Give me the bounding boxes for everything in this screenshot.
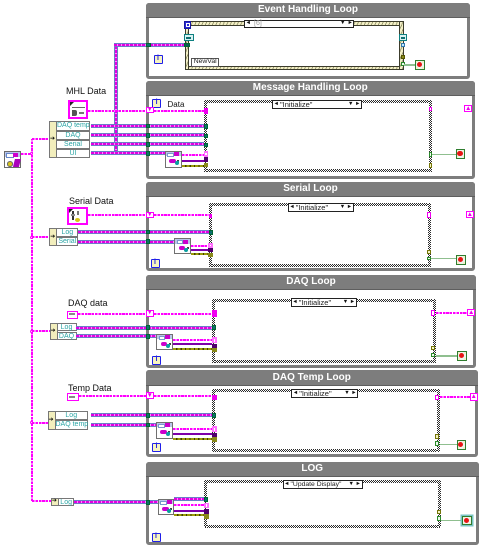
unbundle node Serial: cluster strip: [49, 228, 57, 246]
case structure Serial: right border: [428, 203, 431, 267]
tunnel olive DAQ: [212, 348, 217, 352]
VI icon MHL (dequeue message): [165, 151, 182, 168]
label Data: [168, 100, 188, 107]
stop button terminal Temp stop: [457, 440, 467, 450]
tunnel green LOG right: [437, 516, 441, 521]
banner: DAQ Temp Loop: [146, 370, 478, 386]
tunnel MHL loop tunnel 3: [146, 142, 151, 147]
unbundle node DAQ: input arrow: [51, 329, 58, 334]
wire MHL message out: [182, 160, 204, 162]
case structure DAQ: right border: [433, 299, 436, 363]
wire junction UI queue junction: [114, 152, 118, 156]
tunnel MHL case tunnel 2: [204, 134, 208, 139]
tunnel olive on event right border: [401, 55, 406, 59]
unbundle node MHL Data: field DAQ: [56, 131, 90, 140]
label Serial Data: [69, 196, 139, 206]
case structure LOG: left border: [204, 480, 207, 527]
shift register DAQ right: [467, 309, 475, 316]
wire shift register to case: [154, 110, 204, 112]
tunnel olive DAQ right: [431, 346, 435, 350]
wire branch to LOG node: [32, 500, 52, 502]
selector increment arrow LOG: [356, 482, 361, 488]
tunnel green MHL right: [429, 152, 433, 157]
unbundle node DAQ: field Log: [57, 323, 77, 331]
case structure LOG: top border: [204, 480, 441, 483]
event data node label NewVal: [191, 58, 219, 67]
case selector label Temp: [291, 389, 358, 398]
tunnel Temp loop tunnel 1: [146, 413, 151, 418]
tunnel purple DAQ: [212, 344, 217, 348]
tunnel green Temp right: [435, 441, 439, 446]
VI icon Main.vi: [4, 151, 21, 168]
event selector decrement arrow: [246, 21, 251, 27]
wire branch to DAQ unbundle: [32, 330, 51, 332]
wire DAQ queue: [91, 133, 205, 137]
tunnel MHL loop tunnel 1: [146, 124, 151, 129]
shift register MHL left: [146, 107, 155, 113]
wire DAQ stop wire: [436, 355, 458, 357]
tunnel purple Serial: [208, 248, 213, 252]
wire Serial Data to shift register: [88, 214, 145, 216]
unbundle node LOG: field Log: [58, 498, 75, 506]
tunnel MHL case data out: [429, 107, 433, 112]
selector increment arrow MHL: [355, 102, 360, 108]
wire DAQ case to right SR: [436, 312, 468, 314]
unbundle node LOG: cluster strip: [51, 498, 59, 506]
wire MHL dequeue queue out: [182, 154, 204, 156]
case structure DAQ: top border: [212, 299, 436, 302]
constant icon Temp Data: [67, 393, 79, 401]
wire DAQ error out: [173, 348, 212, 350]
while loop frame: DAQ Loop: [146, 275, 476, 368]
constant icon DAQ data: [67, 311, 79, 319]
case structure Temp: top border: [212, 389, 440, 392]
wire Temp message out: [173, 433, 212, 435]
while loop frame: Event Handling Loop: [146, 3, 470, 80]
tunnel DAQ loop tunnel 1: [146, 325, 151, 330]
wire LOG error out: [174, 514, 204, 516]
wire DAQ Log queue: [76, 326, 212, 330]
loop iteration terminal Serial loop: [151, 259, 160, 268]
unbundle node DAQ: cluster strip: [50, 323, 58, 340]
selector decrement arrow Serial: [289, 205, 294, 211]
unbundle node MHL Data: input arrow: [50, 137, 57, 142]
stop button terminal MHL stop: [456, 149, 466, 159]
selector decrement arrow Temp: [293, 391, 298, 397]
selector increment arrow DAQ: [350, 300, 355, 306]
while loop frame: DAQ Temp Loop: [146, 370, 478, 457]
dynamic event terminal (right): [399, 34, 407, 42]
case structure Serial: top border: [209, 203, 431, 206]
tunnel DAQ queue out tunnel: [212, 337, 217, 343]
case structure Temp: bottom border: [212, 449, 440, 452]
tunnel olive Temp: [212, 437, 217, 442]
wire LOG queue to case: [174, 497, 204, 501]
tunnel LOG case tunnel teal: [204, 497, 208, 502]
loop iteration terminal MHL loop: [152, 99, 161, 108]
unbundle node Temp: cluster strip: [48, 411, 56, 429]
tunnel MHL queue out tunnel: [204, 151, 209, 157]
selector text LOG: [291, 481, 347, 489]
shift register Temp right: [470, 393, 478, 400]
case structure Temp: left border: [212, 389, 215, 452]
loop iteration terminal DAQ loop: [152, 356, 161, 365]
wire DAQ dequeue queue out: [173, 339, 212, 341]
constant icon Serial Data: [67, 207, 88, 225]
case selector label Serial: [288, 203, 354, 212]
loop iteration terminal LOG loop: [152, 533, 161, 542]
wire event stop wire: [404, 64, 416, 66]
wire Serial queue: [91, 142, 205, 146]
tunnel Serial loop tunnel 2: [146, 239, 151, 244]
case structure MHL: top border: [204, 100, 432, 103]
event selector increment arrow: [348, 21, 353, 27]
case structure Temp: right border: [437, 389, 440, 452]
selector dropdown arrow LOG: [349, 482, 355, 488]
event selector text [6]: [254, 20, 284, 28]
wire junction at Temp branch: [30, 421, 34, 425]
event structure: left border: [185, 21, 190, 70]
stop button terminal LOG stop: [462, 516, 472, 526]
case structure LOG: right border: [438, 480, 441, 527]
tunnel purple LOG: [204, 509, 209, 514]
constant icon MHL Data (queue cluster): [68, 100, 88, 119]
event selector dropdown arrow: [340, 21, 346, 27]
tunnel Serial queue out tunnel: [208, 243, 213, 248]
unbundle node DAQ: field DAQ: [57, 332, 77, 340]
shift register MHL right: [464, 105, 472, 112]
tunnel DAQ case data out: [431, 310, 435, 316]
wire DAQ SR to case: [154, 313, 212, 315]
tunnel Temp queue out tunnel: [212, 426, 217, 432]
dynamic event terminal (left): [184, 34, 194, 41]
wire LOG stop wire: [441, 520, 463, 522]
tunnel MHL loop tunnel 2: [146, 133, 151, 138]
unbundle node Temp: input arrow: [49, 418, 56, 423]
tunnel Temp case data out: [435, 395, 439, 401]
stop button terminal Serial stop: [456, 255, 466, 265]
wire Temp SR to case: [154, 395, 212, 397]
case structure MHL: left border: [204, 100, 207, 173]
wire Temp queue wire: [91, 423, 156, 427]
wire MHL error out: [182, 165, 204, 167]
wire branch to MHL unbundle: [32, 138, 50, 140]
tunnel MHL loop tunnel 4: [146, 151, 151, 156]
wire Temp case to right SR: [440, 396, 470, 398]
selector dropdown arrow DAQ: [343, 300, 349, 306]
tunnel olive LOG right: [437, 510, 441, 515]
tunnel Serial case tunnel 1: [209, 230, 213, 235]
wire Serial error out: [191, 253, 209, 255]
unbundle node MHL Data: field UI: [56, 149, 90, 158]
tunnel olive LOG: [204, 514, 209, 519]
case structure MHL: right border: [429, 100, 432, 173]
tunnel olive MHL: [204, 163, 209, 168]
wire LOG message out: [174, 510, 204, 512]
case structure DAQ: bottom border: [212, 360, 436, 363]
tunnel event struct UI in: [184, 43, 190, 47]
wire branch to Temp unbundle: [32, 422, 49, 424]
stop button terminal DAQ stop: [457, 351, 467, 361]
wire UI queue into event loop: [114, 43, 185, 47]
wire Temp Log queue: [91, 413, 213, 417]
shift register Serial right: [466, 211, 474, 218]
wire LOG dequeue queue out: [174, 504, 204, 506]
wire Serial message out: [191, 249, 209, 251]
event structure: right border: [399, 21, 404, 70]
tunnel green on event right border: [401, 62, 406, 67]
wire UI queue vertical to event loop: [114, 45, 118, 153]
unbundle node Serial: input arrow: [50, 235, 57, 240]
tunnel DAQ loop tunnel 2: [146, 334, 151, 339]
wire Serial stop wire: [431, 258, 457, 260]
case selector label LOG: [283, 480, 363, 489]
banner: DAQ Loop: [146, 275, 476, 290]
tunnel Temp case data in: [212, 395, 217, 401]
wire Temp error out: [173, 438, 212, 440]
tunnel Temp case tunnel 1: [212, 413, 216, 418]
wire UI queue: [91, 151, 166, 155]
banner: Message Handling Loop: [146, 81, 475, 96]
label MHL Data: [66, 86, 126, 96]
tunnel LOG queue out tunnel: [204, 503, 209, 509]
while loop frame: LOG: [146, 462, 479, 545]
wire junction at DAQ branch: [30, 330, 34, 334]
VI icon Serial (dequeue message): [174, 238, 191, 254]
wire DAQ temp queue: [91, 124, 205, 128]
selector text MHL: [280, 101, 346, 109]
tunnel LOG loop tunnel: [146, 500, 151, 505]
tunnel green Serial right: [427, 257, 430, 261]
while loop frame: Message Handling Loop: [146, 81, 475, 179]
event structure dynamic event icon (top-left): [184, 21, 191, 29]
unbundle node LOG: input arrow: [52, 499, 59, 504]
VI icon DAQ (dequeue message): [156, 334, 173, 351]
banner: Serial Loop: [146, 182, 475, 197]
wire branch to Serial unbundle: [32, 236, 51, 238]
selector increment arrow Serial: [347, 205, 352, 211]
unbundle node Serial: field Log: [56, 228, 78, 237]
wire Serial dequeue queue out: [191, 245, 209, 247]
wire MHL Data to shift register: [88, 110, 146, 112]
wire junction at main VI: [30, 152, 34, 156]
shift register DAQ left: [146, 310, 155, 317]
selector dropdown arrow Temp: [344, 391, 350, 397]
VI icon LOG (dequeue message): [158, 499, 175, 516]
tunnel Serial case data out: [427, 212, 430, 217]
wire LOG queue wire: [74, 500, 158, 504]
banner: Event Handling Loop: [146, 3, 470, 18]
case selector label MHL: [272, 100, 362, 109]
label DAQ data: [68, 298, 128, 308]
tunnel olive Temp right: [435, 434, 439, 439]
tunnel MHL case tunnel 3: [204, 143, 208, 148]
label Temp Data: [68, 383, 130, 393]
tunnel purple Temp: [212, 433, 217, 438]
selector decrement arrow DAQ: [292, 300, 297, 306]
tunnel DAQ case data in: [212, 310, 217, 316]
event structure: bottom border: [185, 66, 404, 71]
shift register Serial left: [146, 212, 155, 219]
wire Temp Data to shift register: [79, 395, 146, 397]
selector dropdown arrow MHL: [348, 102, 354, 108]
tunnel MHL case tunnel 1: [204, 124, 208, 129]
wire DAQ queue wire: [76, 334, 157, 338]
VI icon Temp (dequeue message): [156, 422, 173, 439]
event structure: top border: [185, 21, 404, 26]
case structure Serial: left border: [209, 203, 212, 267]
selector increment arrow Temp: [351, 391, 356, 397]
unbundle node MHL Data: cluster strip: [49, 121, 57, 158]
case structure Serial: bottom border: [209, 264, 431, 267]
case structure LOG: bottom border: [204, 525, 441, 528]
case structure DAQ: left border: [212, 299, 215, 363]
wire cluster trunk vertical: [31, 139, 33, 501]
tunnel olive Serial: [208, 253, 213, 257]
selector decrement arrow LOG: [284, 482, 289, 488]
wire DAQ message out: [173, 343, 212, 345]
tunnel Temp loop tunnel 2: [146, 423, 151, 428]
wire DAQ data to shift register: [78, 313, 145, 315]
while loop frame: Serial Loop: [146, 182, 475, 272]
unbundle node Temp: field DAQ temp: [55, 420, 89, 429]
selector text Temp: [299, 390, 342, 398]
wire Temp stop wire: [440, 444, 457, 446]
tunnel green DAQ right: [431, 353, 435, 358]
tunnel Serial loop tunnel 1: [146, 230, 151, 235]
selector decrement arrow MHL: [274, 102, 279, 108]
tunnel event loop UI in: [146, 43, 151, 48]
loop iteration terminal Temp loop: [152, 443, 161, 452]
wire from main VI icon: [21, 153, 32, 155]
tunnel purple MHL: [204, 157, 209, 162]
wire Serial SR to case: [154, 214, 209, 216]
unbundle node Temp: field Log: [55, 411, 89, 420]
shift register Temp left: [146, 392, 155, 399]
wire Temp dequeue queue out: [173, 428, 212, 430]
banner: LOG: [146, 462, 479, 478]
event selector label: [244, 20, 354, 29]
stop button terminal event loop stop: [415, 60, 425, 70]
tunnel MHL case data in: [204, 108, 208, 113]
loop iteration terminal event loop: [154, 55, 163, 64]
selector dropdown arrow Serial: [340, 205, 346, 211]
tunnel DAQ case tunnel 1: [212, 325, 216, 330]
tunnel Serial case data in: [209, 214, 213, 218]
wire MHL stop wire: [432, 154, 455, 156]
unbundle node MHL Data: field DAQ temp: [56, 121, 90, 130]
case structure MHL: bottom border: [204, 169, 432, 172]
wire Serial queue wire: [78, 240, 175, 244]
case selector label DAQ: [291, 298, 357, 307]
tunnel olive MHL right: [429, 163, 433, 168]
wire junction at Serial branch: [30, 236, 34, 240]
wire Serial Log queue: [78, 230, 209, 234]
selector text DAQ: [299, 299, 341, 307]
tunnel olive Serial right: [427, 250, 430, 253]
unbundle node Serial: field Serial: [56, 237, 78, 246]
selector text Serial: [296, 204, 338, 212]
unbundle node MHL Data: field Serial: [56, 140, 90, 149]
tunnel cyan on event right border: [401, 43, 406, 48]
